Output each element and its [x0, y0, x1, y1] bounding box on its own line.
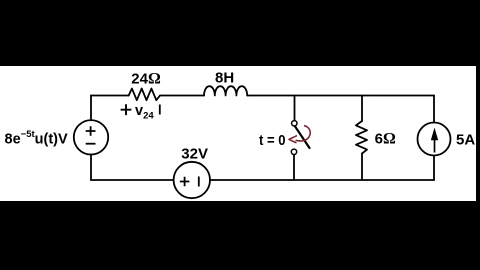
svg-text:8e−5tu(t)V: 8e−5tu(t)V	[5, 129, 68, 148]
wire top-mid segment	[160, 95, 204, 97]
wire left branch lower	[90, 155, 92, 181]
resistor R 24ohm	[129, 89, 160, 101]
svg-text:6Ω: 6Ω	[375, 131, 396, 148]
switch motion arrowhead	[289, 136, 297, 143]
wire 6ohm branch lower	[361, 154, 363, 181]
voltage source Vs2 minus bar	[198, 177, 200, 187]
switch motion arrow (maroon arc)	[296, 126, 311, 141]
wire top-left segment	[91, 95, 129, 97]
voltage source Vs1 minus sign	[86, 143, 96, 145]
svg-text:24Ω: 24Ω	[131, 71, 161, 88]
bottom wire left segment	[91, 179, 174, 181]
resistor R 6ohm	[356, 121, 367, 154]
wire switch branch lower	[293, 155, 295, 181]
svg-text:5A: 5A	[456, 131, 475, 148]
inductor L 8H	[204, 86, 247, 95]
svg-text:8H: 8H	[215, 69, 234, 86]
voltage source Vs2 plus sign	[180, 177, 190, 187]
wire right branch lower	[433, 156, 435, 181]
svg-text:t = 0: t = 0	[259, 132, 286, 149]
wire switch branch upper	[294, 96, 296, 121]
current source Is 5A circle	[418, 123, 451, 156]
label v24 polarity bar	[159, 105, 161, 115]
label v24 polarity plus	[121, 104, 132, 115]
wire right branch upper	[433, 96, 435, 123]
wire left branch upper	[90, 96, 92, 121]
bottom wire right segment	[210, 179, 434, 181]
switch blade	[295, 126, 310, 148]
wire top-right segment	[247, 95, 434, 97]
switch terminal lower	[291, 149, 296, 154]
voltage source Vs1 plus sign	[86, 126, 96, 136]
switch terminal upper	[292, 121, 297, 126]
voltage source Vs1 circle	[74, 120, 108, 154]
svg-text:32V: 32V	[181, 145, 208, 162]
wire 6ohm branch upper	[361, 96, 363, 122]
current source Is arrow	[434, 135, 436, 153]
voltage source Vs2 32V circle	[174, 162, 210, 198]
